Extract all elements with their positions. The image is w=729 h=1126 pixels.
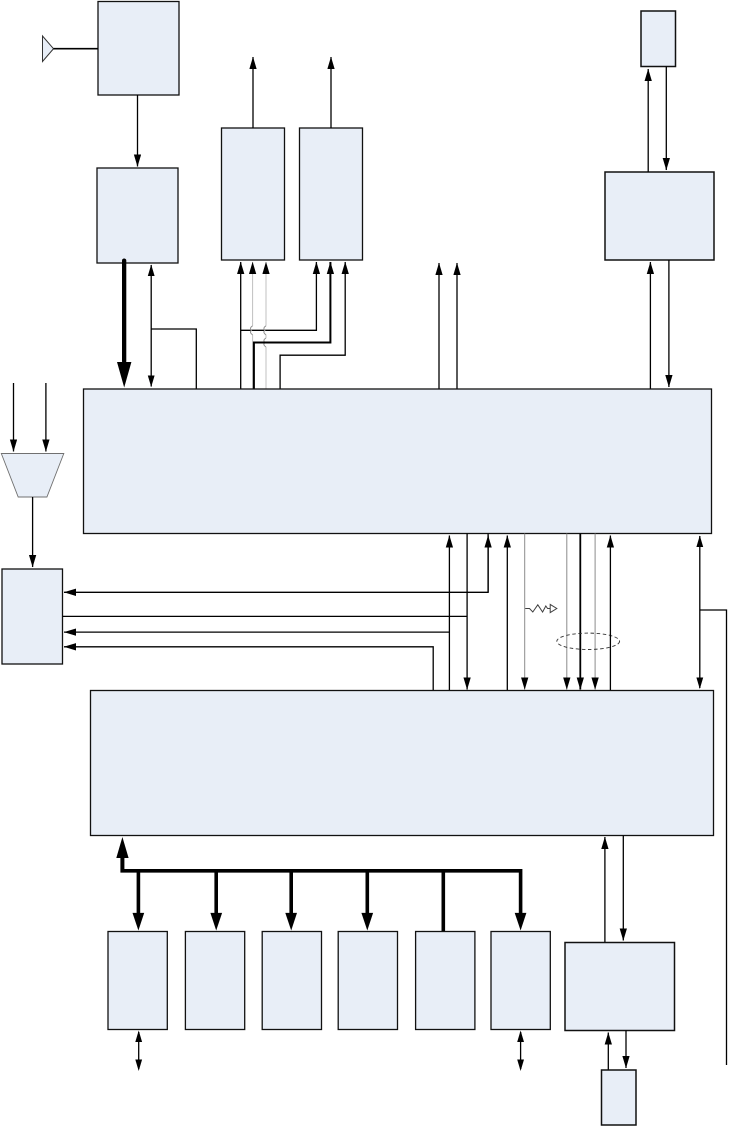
thick drop to P1 — [133, 869, 145, 931]
wire gray U4 pin2 — [252, 262, 254, 389]
wire U1 to U2 arrow — [137, 95, 139, 167]
block P6 — [491, 932, 550, 1030]
wire h1 U3 to U8 — [64, 534, 488, 593]
thick drop to P2 — [210, 869, 222, 931]
wire branch to U5 pin1 — [241, 262, 317, 330]
block U1 receiver top-left — [98, 2, 179, 96]
arrow up into U3 on h1 riser — [487, 536, 489, 593]
bus ellipse annotation — [557, 633, 620, 649]
block P4 — [338, 932, 397, 1030]
wire U2-U3 double arrow — [150, 265, 152, 387]
mux M1 trapezoid — [1, 454, 64, 498]
block U8 left small — [2, 569, 63, 664]
block P5 — [416, 932, 475, 1030]
double arrow below P1 — [138, 1032, 140, 1069]
wire h2 tap to U8 — [63, 615, 468, 617]
wire L-branch into U3 top — [151, 329, 196, 389]
block U4 tall left — [222, 128, 285, 260]
wire v9 U9 to U3 up — [609, 536, 611, 691]
block U3 main control (upper wide) — [84, 389, 712, 534]
wire U9 to U10 down arrow — [622, 836, 624, 941]
wire U11 to U10 up arrow — [607, 1033, 609, 1071]
thick bus up arrow into U9 — [116, 837, 128, 873]
thick drop to P3 — [285, 869, 297, 931]
block U2 front-end — [97, 168, 178, 263]
double arrow below P6 — [520, 1032, 522, 1069]
wire antenna to U1 — [54, 48, 99, 50]
hop on gray wire at h1 — [264, 326, 266, 335]
wire U10 to U11 down arrow — [625, 1031, 627, 1069]
thick bus arrow U2 to U3 — [117, 259, 131, 388]
block P3 — [262, 932, 321, 1030]
wire gray U4 pin3 — [265, 262, 267, 389]
thick bus horizontal — [121, 869, 521, 873]
wire U3 output up B — [456, 263, 458, 389]
wire gray v6 U3 to U9 — [566, 534, 568, 690]
antenna — [43, 36, 54, 62]
wire bold U3 to U5 pin2 — [254, 262, 331, 389]
wire U3 to U5 pin3 — [280, 262, 345, 389]
wire right side branch — [700, 610, 727, 1065]
wire U7 to U6 up arrow — [647, 69, 649, 172]
wire h3 tap to U8 — [64, 631, 449, 633]
wire h4 U9 to U8 — [64, 647, 433, 691]
wire gray v5 U3 to U9 — [524, 534, 526, 690]
thick drop to P5 no arrow — [442, 869, 446, 932]
block P2 — [185, 932, 244, 1030]
block U5 tall right — [300, 128, 363, 260]
hop on gray wire — [250, 326, 252, 335]
mux input arrow B — [45, 383, 47, 452]
block U9 main processor (lower wide) — [91, 691, 714, 836]
wire mux output to U8 — [32, 497, 34, 567]
block U6 small top-right — [641, 11, 676, 67]
wire U5 output up — [330, 57, 332, 128]
wire v10 double arrow U3-U9 — [699, 536, 701, 688]
wire U3 output up A — [438, 263, 440, 389]
wire U6 to U7 down arrow — [665, 67, 667, 171]
wire U7 to U3 up arrow — [649, 262, 651, 389]
wire v7 U3 to U9 — [579, 534, 581, 690]
wire v4 U9 to U3 up — [506, 536, 508, 691]
wire U4 output up — [252, 57, 254, 128]
wire v2 U3 to U9 down with tap h2 — [466, 534, 468, 690]
annotation zigzag arrow — [525, 604, 557, 612]
mux input arrow A — [13, 383, 15, 452]
block U11 bottom small — [602, 1070, 637, 1125]
wire U3 to U4 pin1 — [240, 262, 242, 389]
thick drop to P6 — [515, 869, 527, 931]
wire U10 to U9 up arrow — [604, 837, 606, 943]
wire U3 to U7 down arrow — [668, 260, 670, 387]
hop on gray wire at h2 — [264, 338, 266, 347]
wire gray v8 U3 to U9 — [594, 534, 596, 690]
block U10 bottom right — [565, 943, 675, 1031]
block P1 — [108, 932, 167, 1030]
thick drop to P4 — [361, 869, 373, 931]
wire v1 U9 to U3 up with tap h3 — [448, 536, 450, 691]
block U7 top-right — [605, 172, 714, 260]
